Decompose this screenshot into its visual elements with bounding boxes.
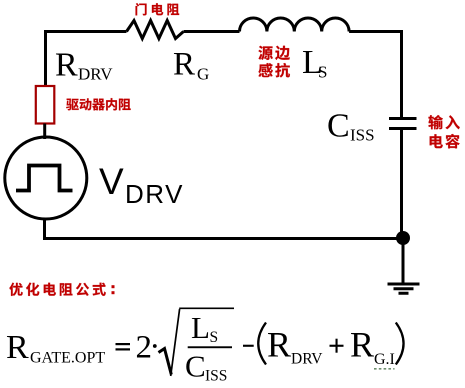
resistor RDRV body (red rectangle, driver internal resistance) [36, 86, 55, 124]
formula equals sign [116, 343, 131, 345]
label 驱动器内阻 (driver internal resistance, red) [66, 99, 78, 111]
formula multiplication dot [153, 344, 157, 348]
svg-text:R: R [55, 47, 78, 84]
svg-text:R: R [6, 329, 29, 366]
ground symbol [388, 243, 420, 293]
wire: inductor to top-right corner, down to capacitor [349, 32, 401, 118]
wire: capacitor down to node [400, 130, 403, 238]
svg-text:R: R [267, 325, 291, 365]
svg-text:DRV: DRV [125, 179, 184, 209]
svg-text:V: V [99, 161, 124, 202]
formula right parenthesis [396, 323, 404, 365]
wire: gate resistor to inductor [184, 30, 240, 33]
formula fraction bar [188, 346, 232, 348]
formula left parenthesis [258, 323, 266, 365]
colon of heading [112, 285, 115, 288]
label 感抗 (red, line 2) [258, 63, 272, 77]
svg-text:ISS: ISS [205, 368, 227, 385]
svg-text:DRV: DRV [291, 351, 323, 368]
svg-text:S: S [318, 63, 327, 82]
wire: bottom return from source to node [45, 219, 404, 239]
wire: top-left vertical and top horizontal to gate resistor [46, 32, 127, 86]
svg-text:G.I: G.I [374, 351, 395, 368]
svg-text:C: C [327, 108, 350, 145]
label 输入 (red, line 1) [428, 115, 442, 129]
label 源边 (red, line 1) [258, 46, 272, 60]
svg-text:ISS: ISS [350, 126, 375, 145]
formula plus sign [330, 345, 344, 347]
label 电容 (red, line 2) [430, 134, 443, 148]
svg-text:R: R [350, 325, 374, 365]
capacitor CISS plates [389, 119, 417, 129]
pulse waveform inside source [16, 166, 73, 191]
svg-text:C: C [185, 349, 206, 384]
svg-text:DRV: DRV [78, 65, 113, 84]
wire: red resistor to source circle [43, 124, 46, 140]
label 优化电阻公式: (red heading) [9, 283, 22, 296]
inductor LS (4 humps) [240, 18, 350, 32]
source VDRV circle [5, 137, 87, 219]
formula radical sign [159, 349, 172, 375]
spell-check dashed underline under G.I subscript [374, 368, 395, 370]
svg-text:R: R [173, 47, 195, 83]
node junction dot [396, 231, 410, 245]
svg-text:2: 2 [136, 330, 153, 366]
formula minus sign [243, 345, 254, 347]
resistor RG (gate resistor) zigzag [127, 21, 184, 39]
svg-text:GATE.OPT: GATE.OPT [30, 350, 105, 367]
label 门电阻 (gate resistor, red) [136, 3, 147, 15]
svg-text:G: G [197, 65, 209, 84]
svg-text:L: L [191, 310, 210, 345]
svg-text:S: S [210, 329, 219, 346]
